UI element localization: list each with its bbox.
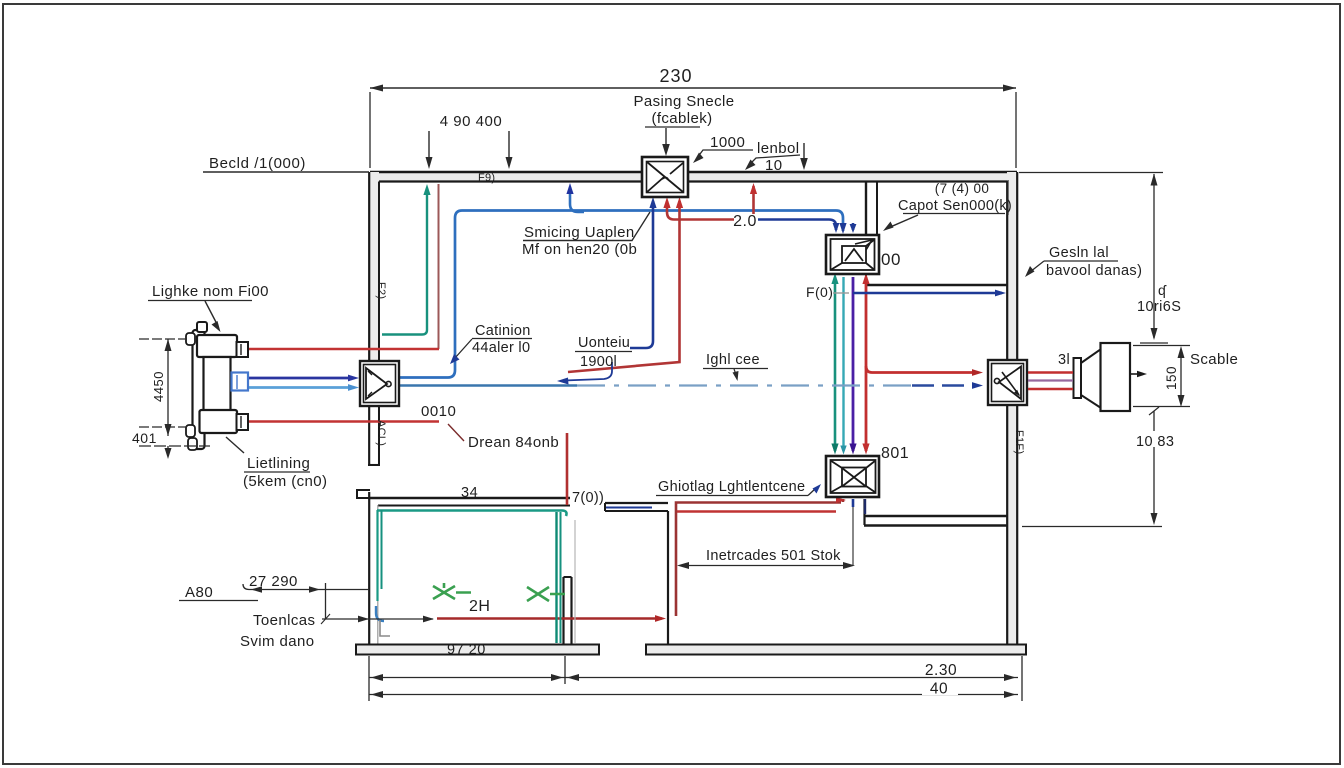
svg-text:F1F): F1F) — [1013, 430, 1025, 454]
svg-text:Ghiotlag Lghtlentcene: Ghiotlag Lghtlentcene — [658, 479, 805, 495]
luminaire left: top connector — [237, 342, 249, 357]
svg-text:150: 150 — [1164, 366, 1179, 390]
dimension 230 (overall width) — [370, 66, 1016, 168]
svg-text:1000: 1000 — [710, 134, 745, 151]
svg-text:0010: 0010 — [421, 403, 456, 420]
switch box S2 (right, on wall) — [988, 360, 1027, 405]
bottom dimension extension lines — [369, 656, 1022, 701]
label Lighke nom Fi00 with leader — [148, 283, 269, 332]
label F(0) near teal trunk — [806, 284, 849, 300]
wires red to right fixture — [1028, 371, 1073, 374]
dimension 4450 vertical — [139, 339, 187, 436]
svg-text:ACL): ACL) — [375, 420, 387, 446]
junction box J1 (passing socket, top) — [642, 157, 688, 197]
wire crimson trunk Capot to 801 with branch to right box — [862, 273, 983, 455]
wire dashed centerline (light blue) — [399, 382, 983, 389]
svg-text:230: 230 — [659, 66, 692, 86]
label Uonteiu 1900l — [575, 335, 632, 370]
svg-text:34: 34 — [461, 485, 478, 501]
interior wall above Capot box — [866, 182, 877, 236]
interior wall vertical (right of door) — [667, 511, 669, 645]
svg-text:3l: 3l — [1058, 352, 1070, 368]
svg-text:44aler l0: 44aler l0 — [472, 340, 530, 356]
svg-text:A80: A80 — [185, 584, 213, 601]
dimension 40 — [369, 681, 1018, 699]
label Becld /1(000) — [203, 155, 369, 172]
svg-text:(5kem (cn0): (5kem (cn0) — [243, 473, 327, 490]
label Gesln lal / bavool danas) — [1025, 245, 1142, 279]
svg-text:Mf on hen20 (0b: Mf on hen20 (0b — [522, 241, 637, 258]
svg-text:97 20: 97 20 — [447, 642, 486, 658]
lamp symbol green X right — [527, 587, 565, 601]
gray guide x565 in room — [574, 520, 576, 643]
gray bracket at room left wall — [380, 620, 390, 636]
label Lietlining (5kem (cn0) with leader — [226, 437, 327, 490]
svg-text:Inetrcades 501 Stok: Inetrcades 501 Stok — [706, 548, 841, 564]
wire teal trunk Capot to 801 — [831, 273, 838, 455]
svg-text:F2): F2) — [375, 282, 387, 299]
dimension 4 90 400 — [426, 113, 513, 169]
label 27 290 — [243, 573, 369, 619]
wire purple trunk Capot to 801 — [849, 277, 856, 455]
wire red from left lamp top — [247, 348, 439, 351]
leader to Drean 84onb — [448, 424, 464, 441]
wire red lower run y511 — [677, 510, 836, 512]
luminaire left: top body — [197, 335, 237, 357]
wire red drop from Passing box x679 slanting to 1900l label — [568, 197, 683, 372]
dimension 10 83 vertical — [1134, 407, 1178, 525]
reference line right of wall (for 10 83 dimension) — [1022, 526, 1162, 528]
svg-text:(fcablek): (fcablek) — [651, 110, 712, 127]
svg-text:Toenlcas: Toenlcas — [253, 612, 315, 629]
wire blue riser x570 (arrow up into wall) — [566, 183, 584, 212]
svg-text:Scable: Scable — [1190, 351, 1238, 368]
wall left (building) — [368, 172, 380, 465]
fixture right: horn trapezoid — [1081, 349, 1101, 408]
svg-text:4450: 4450 — [151, 371, 166, 402]
svg-text:Pasing Snecle: Pasing Snecle — [633, 93, 734, 110]
fixture right: connector bar — [1074, 358, 1082, 398]
junction box J2 (Capot box, right-middle) — [826, 235, 879, 274]
luminaire left: middle connector (blue) — [232, 373, 249, 391]
interior wall right of Capot box — [866, 274, 1007, 285]
interior wall below 801 box — [864, 499, 1007, 526]
svg-text:F9): F9) — [478, 172, 495, 184]
wire maroon horizontal room y618 — [437, 615, 666, 622]
svg-text:Uonteiu: Uonteiu — [578, 335, 630, 351]
wall top (building) — [370, 172, 1017, 182]
dim extension gray x853 (801 to Inetrcades line) — [852, 507, 854, 565]
wire navy stub Capot top x853 — [850, 223, 857, 233]
wire red riser x567 (to room corner) — [566, 433, 569, 505]
room teal right verticals — [557, 512, 561, 643]
wire red from Passing box to wall (2.0 circuit) — [663, 183, 757, 220]
svg-text:Smicing Uaplen: Smicing Uaplen — [524, 224, 635, 241]
wire navy stub 801 bottom x853 — [852, 499, 855, 507]
arrowhead steel-blue into Capot box — [839, 223, 846, 234]
luminaire left: bottom body — [200, 410, 238, 433]
svg-text:Svim dano: Svim dano — [240, 633, 314, 650]
svg-text:27 290: 27 290 — [249, 573, 298, 590]
luminaire left: mounting rail — [186, 322, 207, 450]
label Catinion 44aler l0 (mid annotations) — [450, 323, 532, 364]
blue hook at room left wall — [376, 606, 384, 621]
label lenbol 10 with leaders — [745, 140, 808, 174]
wire teal riser (top-left inside building) — [382, 184, 431, 335]
wire cyan trunk Capot to 801 — [842, 277, 844, 451]
label Inetrcades 501 Stok with dimension — [677, 548, 855, 569]
svg-text:2.0: 2.0 — [733, 213, 757, 230]
dimension 401 — [132, 430, 210, 459]
wire navy from left lamp middle to switch box — [248, 375, 359, 382]
room middle partition wall — [564, 577, 572, 645]
leader arrow of 1900l label onto centerline — [564, 362, 612, 381]
wire navy branch to right wall y293 — [853, 290, 1006, 297]
luminaire left: middle body — [204, 357, 231, 411]
svg-text:10: 10 — [765, 157, 783, 174]
label (7 (4) 00 and Capot Sen000(k) — [883, 180, 1012, 231]
svg-text:2.30: 2.30 — [925, 662, 957, 679]
red arrow at 801 bottom — [836, 497, 846, 503]
svg-text:Becld /1(000): Becld /1(000) — [209, 155, 306, 172]
svg-text:10 83: 10 83 — [1136, 434, 1174, 450]
svg-text:(7 (4) 00: (7 (4) 00 — [935, 181, 990, 196]
svg-text:401: 401 — [132, 430, 157, 446]
label Smicing Uaplen / Mf on hen20 — [522, 212, 650, 258]
svg-text:7(0)): 7(0)) — [572, 490, 604, 506]
bottom wall bar right — [646, 645, 1026, 655]
room teal left verticals — [378, 510, 382, 601]
luminaire left: bottom connector — [237, 414, 249, 430]
svg-text:F(0): F(0) — [806, 284, 833, 300]
fixture right: body — [1101, 343, 1131, 411]
svg-text:801: 801 — [881, 445, 909, 462]
svg-text:Ighl cee: Ighl cee — [706, 352, 760, 368]
label A80 — [179, 584, 258, 601]
dimension 150 bracket — [1133, 346, 1190, 408]
room teal loop: top horizontal — [377, 511, 567, 517]
label Ighl cee with arrow to centerline — [703, 352, 768, 381]
label Ghiotlag Lghtlentcene with leader — [656, 479, 821, 496]
svg-text:40: 40 — [930, 681, 948, 698]
wire steel-blue main loop: switch box to Capot box — [399, 211, 843, 378]
junction box J3 (801 box) — [826, 456, 879, 497]
wall segment above door (middle) — [605, 503, 668, 511]
svg-text:2H: 2H — [469, 598, 490, 615]
wire navy short run (from 20 label) into Capot box — [758, 220, 839, 234]
wire navy stub 801 bottom x865 — [864, 499, 866, 514]
wire navy drop from Passing box x653 with left stub — [630, 197, 657, 348]
svg-text:Drean 84onb: Drean 84onb — [468, 434, 559, 451]
svg-text:10ri6S: 10ri6S — [1137, 299, 1181, 315]
label Pasing Snecle (fcablek) — [633, 93, 734, 156]
room bottom-left: wall top double line — [357, 490, 570, 506]
wire navy inside wall segment y507 — [606, 507, 652, 509]
svg-text:bavool danas): bavool danas) — [1046, 263, 1142, 279]
switch box S1 (left, on wall) — [360, 361, 399, 406]
dimension line y619 (Toenlcas) — [321, 614, 434, 624]
svg-text:ʠ: ʠ — [1158, 282, 1167, 298]
svg-text:Capot Sen000(k): Capot Sen000(k) — [898, 198, 1012, 214]
svg-text:Gesln lal: Gesln lal — [1049, 245, 1109, 261]
svg-text:Catinion: Catinion — [475, 323, 531, 339]
dimension 2.30 — [369, 662, 1018, 681]
wire mauve to right fixture — [1028, 379, 1073, 381]
wall right (building) — [1007, 172, 1018, 645]
wire red from left lamp bottom — [248, 420, 439, 423]
svg-text:Lighke nom Fi00: Lighke nom Fi00 — [152, 283, 269, 300]
svg-text:Lietlining: Lietlining — [247, 455, 310, 472]
room bottom-left: wall left double line — [369, 492, 378, 645]
label Toenlcas / Svim dano — [240, 612, 315, 650]
label 1000 with leader — [693, 134, 753, 163]
svg-text:lenbol: lenbol — [757, 140, 799, 157]
svg-text:1900l: 1900l — [580, 354, 617, 370]
wire light blue from left lamp middle to switch box — [248, 384, 359, 391]
dimension 10ri6S vertical — [1019, 173, 1181, 344]
lamp symbol green X left — [433, 583, 471, 599]
bottom wall bar left — [356, 645, 599, 655]
svg-text:00: 00 — [881, 250, 901, 269]
wire maroon riser x438 — [438, 184, 440, 349]
svg-text:4 90 400: 4 90 400 — [440, 113, 502, 130]
fixture right: output arrow — [1131, 371, 1147, 377]
wire maroon loop from 801 box to room (upper) — [676, 499, 843, 616]
